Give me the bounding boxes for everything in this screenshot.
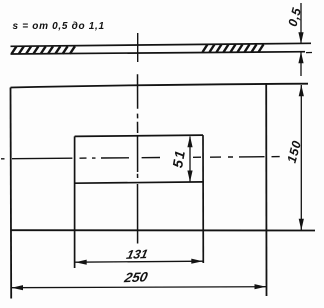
svg-text:131: 131 <box>125 247 149 262</box>
hole top edge <box>75 135 203 136</box>
svg-text:250: 250 <box>122 270 149 286</box>
dimension 150 line <box>300 85 302 230</box>
horizontal centerline front view <box>1 157 280 159</box>
section view vertical centerline <box>137 33 139 62</box>
dimension 0,5 arrowheads <box>298 32 303 44</box>
dimension 250 line <box>12 287 267 288</box>
dimension 51 arrowheads <box>187 136 192 148</box>
plate bottom edge with extension to 150 dim <box>11 229 316 231</box>
hole left edge with extension down <box>74 136 76 268</box>
plate top edge with extension to 150 dim <box>11 84 309 88</box>
dimension 51 line <box>189 137 191 182</box>
plate left edge with extension down <box>10 88 13 299</box>
plate right edge with extension down <box>265 84 267 296</box>
dimension 250 arrowheads <box>12 285 24 290</box>
section view top outline <box>11 43 312 54</box>
vertical centerline front view <box>137 74 139 243</box>
hole outline (inner rectangle) <box>75 135 204 268</box>
centerline dot right of section <box>306 52 312 54</box>
section hatch right <box>203 44 264 52</box>
hole bottom edge <box>75 182 203 183</box>
dimension 0,5 lines <box>300 3 302 76</box>
dimension 150 arrowheads <box>299 85 304 97</box>
hole right edge with extension down <box>202 135 204 263</box>
svg-text:51: 51 <box>169 148 188 169</box>
dimension 131 arrowheads <box>75 260 87 265</box>
plate outline (front view) <box>11 84 316 299</box>
section hatch left <box>12 46 75 54</box>
dimension 131 line <box>75 261 203 262</box>
svg-text:s = от 0,5 до 1,1: s = от 0,5 до 1,1 <box>13 21 105 32</box>
